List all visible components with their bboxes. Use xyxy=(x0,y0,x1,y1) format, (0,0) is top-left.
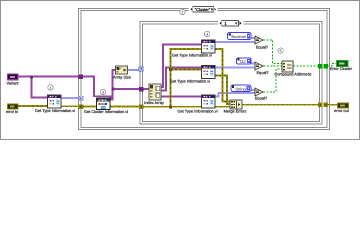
tunnel error into outer case xyxy=(79,104,84,109)
svg-text:Equal?: Equal? xyxy=(256,45,269,50)
svg-text:String: String xyxy=(235,86,245,91)
wire I32 constant to Equal 2 xyxy=(251,62,255,64)
svg-text:"Cluster": "Cluster" xyxy=(195,7,211,12)
function Index Array xyxy=(149,84,161,100)
wire error out of Get Type Information.vi 2 to Merge Errors xyxy=(215,49,230,102)
wire type of element 0 to Equal 1 xyxy=(215,41,255,43)
svg-text:5: 5 xyxy=(280,49,282,53)
tunnel error into inner case xyxy=(139,104,144,109)
svg-text:2: 2 xyxy=(182,11,184,15)
wire String constant to Equal 3 xyxy=(251,89,255,91)
tunnel error out of inner case xyxy=(318,103,323,108)
junction on error wire branch xyxy=(169,68,172,71)
junction on error wire lower xyxy=(169,105,172,108)
case structure "Cluster" (outer) xyxy=(79,9,330,130)
junction at Get Cluster Information output xyxy=(108,98,111,101)
wire boolean Equal 1 to Compound Arithmetic xyxy=(263,40,282,64)
tunnel variant into outer case xyxy=(78,74,83,79)
Variant control terminal xyxy=(8,74,19,80)
svg-text:Get Type Information.vi: Get Type Information.vi xyxy=(177,109,217,114)
svg-text:Boolean: Boolean xyxy=(231,34,246,39)
svg-text:Get Cluster Information.vi: Get Cluster Information.vi xyxy=(84,109,128,114)
wire type enum to case selector xyxy=(61,97,79,99)
tunnel error out of outer case xyxy=(323,103,328,108)
svg-text:error out: error out xyxy=(334,108,350,113)
svg-text:Get Type Information.vi: Get Type Information.vi xyxy=(170,79,210,84)
wire boolean Equal 2 to Compound Arithmetic xyxy=(264,65,283,67)
svg-text:4: 4 xyxy=(206,33,208,37)
subVI Get Type Information.vi 3 xyxy=(202,66,216,79)
error in control terminal xyxy=(8,104,19,109)
subVI Get Cluster Information.vi xyxy=(97,98,111,110)
error wire dash pattern xyxy=(19,49,338,107)
enum constant I32 xyxy=(237,58,252,64)
comparison Equal 2 xyxy=(255,62,263,70)
selector tunnel on outer case xyxy=(79,96,83,100)
case structure "1" (inner) xyxy=(140,22,322,125)
svg-text:Index Array: Index Array xyxy=(144,100,164,105)
comparison Equal 3 xyxy=(255,88,263,96)
wire cluster-elements array to Array Size xyxy=(111,70,116,100)
wire error to Get Type Information.vi 4 xyxy=(144,106,202,108)
Error Cluster boolean indicator terminal xyxy=(337,61,349,67)
wire variant branch to Get Type Information.vi 1 xyxy=(32,77,48,98)
svg-text:Get Type Information.vi: Get Type Information.vi xyxy=(35,108,75,113)
wire boolean result to Error Cluster xyxy=(328,64,337,66)
wire type of element 1 to Equal 2 xyxy=(215,67,255,69)
svg-text:Compound Arithmetic: Compound Arithmetic xyxy=(274,71,311,76)
svg-text:I32: I32 xyxy=(240,59,246,64)
wire error branch to Get Type Information.vi 3 xyxy=(171,69,202,71)
wire type of element 2 to Equal 3 xyxy=(215,93,255,97)
enum constant Boolean xyxy=(228,33,252,40)
wire Boolean constant to Equal 1 xyxy=(251,37,255,39)
callout circle 3 xyxy=(100,89,105,94)
callout circle 2 xyxy=(180,9,185,14)
wire array size count xyxy=(128,69,140,71)
svg-text:error in: error in xyxy=(6,109,18,114)
tunnel array into inner case xyxy=(139,87,144,92)
wire error into outer case xyxy=(61,105,79,107)
wire cluster-elements array into inner case xyxy=(113,88,150,90)
callout circle 1 xyxy=(48,85,53,90)
svg-text:Variant: Variant xyxy=(6,80,19,85)
wire boolean result to tunnels xyxy=(293,65,318,67)
wire merged error to error out xyxy=(328,104,338,106)
function Array Size xyxy=(116,66,128,74)
wire error out of Get Type Information.vi 4 to Merge Errors xyxy=(215,106,230,108)
junction on variant wire xyxy=(30,75,33,78)
case selector label "1" xyxy=(218,20,244,26)
wire element 1 to Get Type Information.vi 3 xyxy=(161,68,202,91)
svg-text:Equal?: Equal? xyxy=(256,70,269,75)
svg-text:Get Type Information.vi: Get Type Information.vi xyxy=(172,53,212,58)
subVI Get Type Information.vi 2 xyxy=(202,40,216,53)
enum constant String xyxy=(231,85,251,92)
svg-text:Error Cluster: Error Cluster xyxy=(330,66,353,71)
wire element 2 to Get Type Information.vi 4 xyxy=(161,96,202,98)
comparison Equal 1 xyxy=(255,36,263,44)
function Compound Arithmetic xyxy=(282,61,293,72)
junction on array wire xyxy=(112,88,115,91)
wire boolean Equal 3 to Compound Arithmetic xyxy=(263,69,282,92)
subVI Get Type Information.vi 4 xyxy=(202,95,216,108)
wire error branch to Get Type Information.vi 2 xyxy=(171,49,202,107)
case selector label "Cluster" xyxy=(189,6,218,12)
svg-text:Equal?: Equal? xyxy=(255,96,268,101)
svg-text:Array Size: Array Size xyxy=(113,74,131,79)
function Merge Errors xyxy=(230,100,242,109)
error out indicator terminal xyxy=(338,103,349,108)
subVI Get Type Information.vi 1 xyxy=(48,95,62,108)
wire element 0 to Get Type Information.vi 2 xyxy=(161,45,202,88)
tunnel boolean out of outer case xyxy=(323,64,328,69)
svg-text:Merge Errors: Merge Errors xyxy=(224,109,247,114)
selector tunnel on inner case xyxy=(139,67,143,71)
callout circle 4 xyxy=(205,31,210,36)
svg-text:1: 1 xyxy=(50,86,52,90)
wire merged error to tunnels xyxy=(242,104,318,106)
tunnel boolean out of inner case xyxy=(318,64,323,69)
callout circle 5 xyxy=(278,48,283,53)
wire error across outer case xyxy=(83,106,139,108)
wire error out of Get Type Information.vi 3 to Merge Errors xyxy=(215,76,230,105)
wire variant main run xyxy=(19,77,111,100)
wire error in to Get Type Information.vi 1 xyxy=(19,105,48,107)
svg-text:3: 3 xyxy=(102,91,104,95)
